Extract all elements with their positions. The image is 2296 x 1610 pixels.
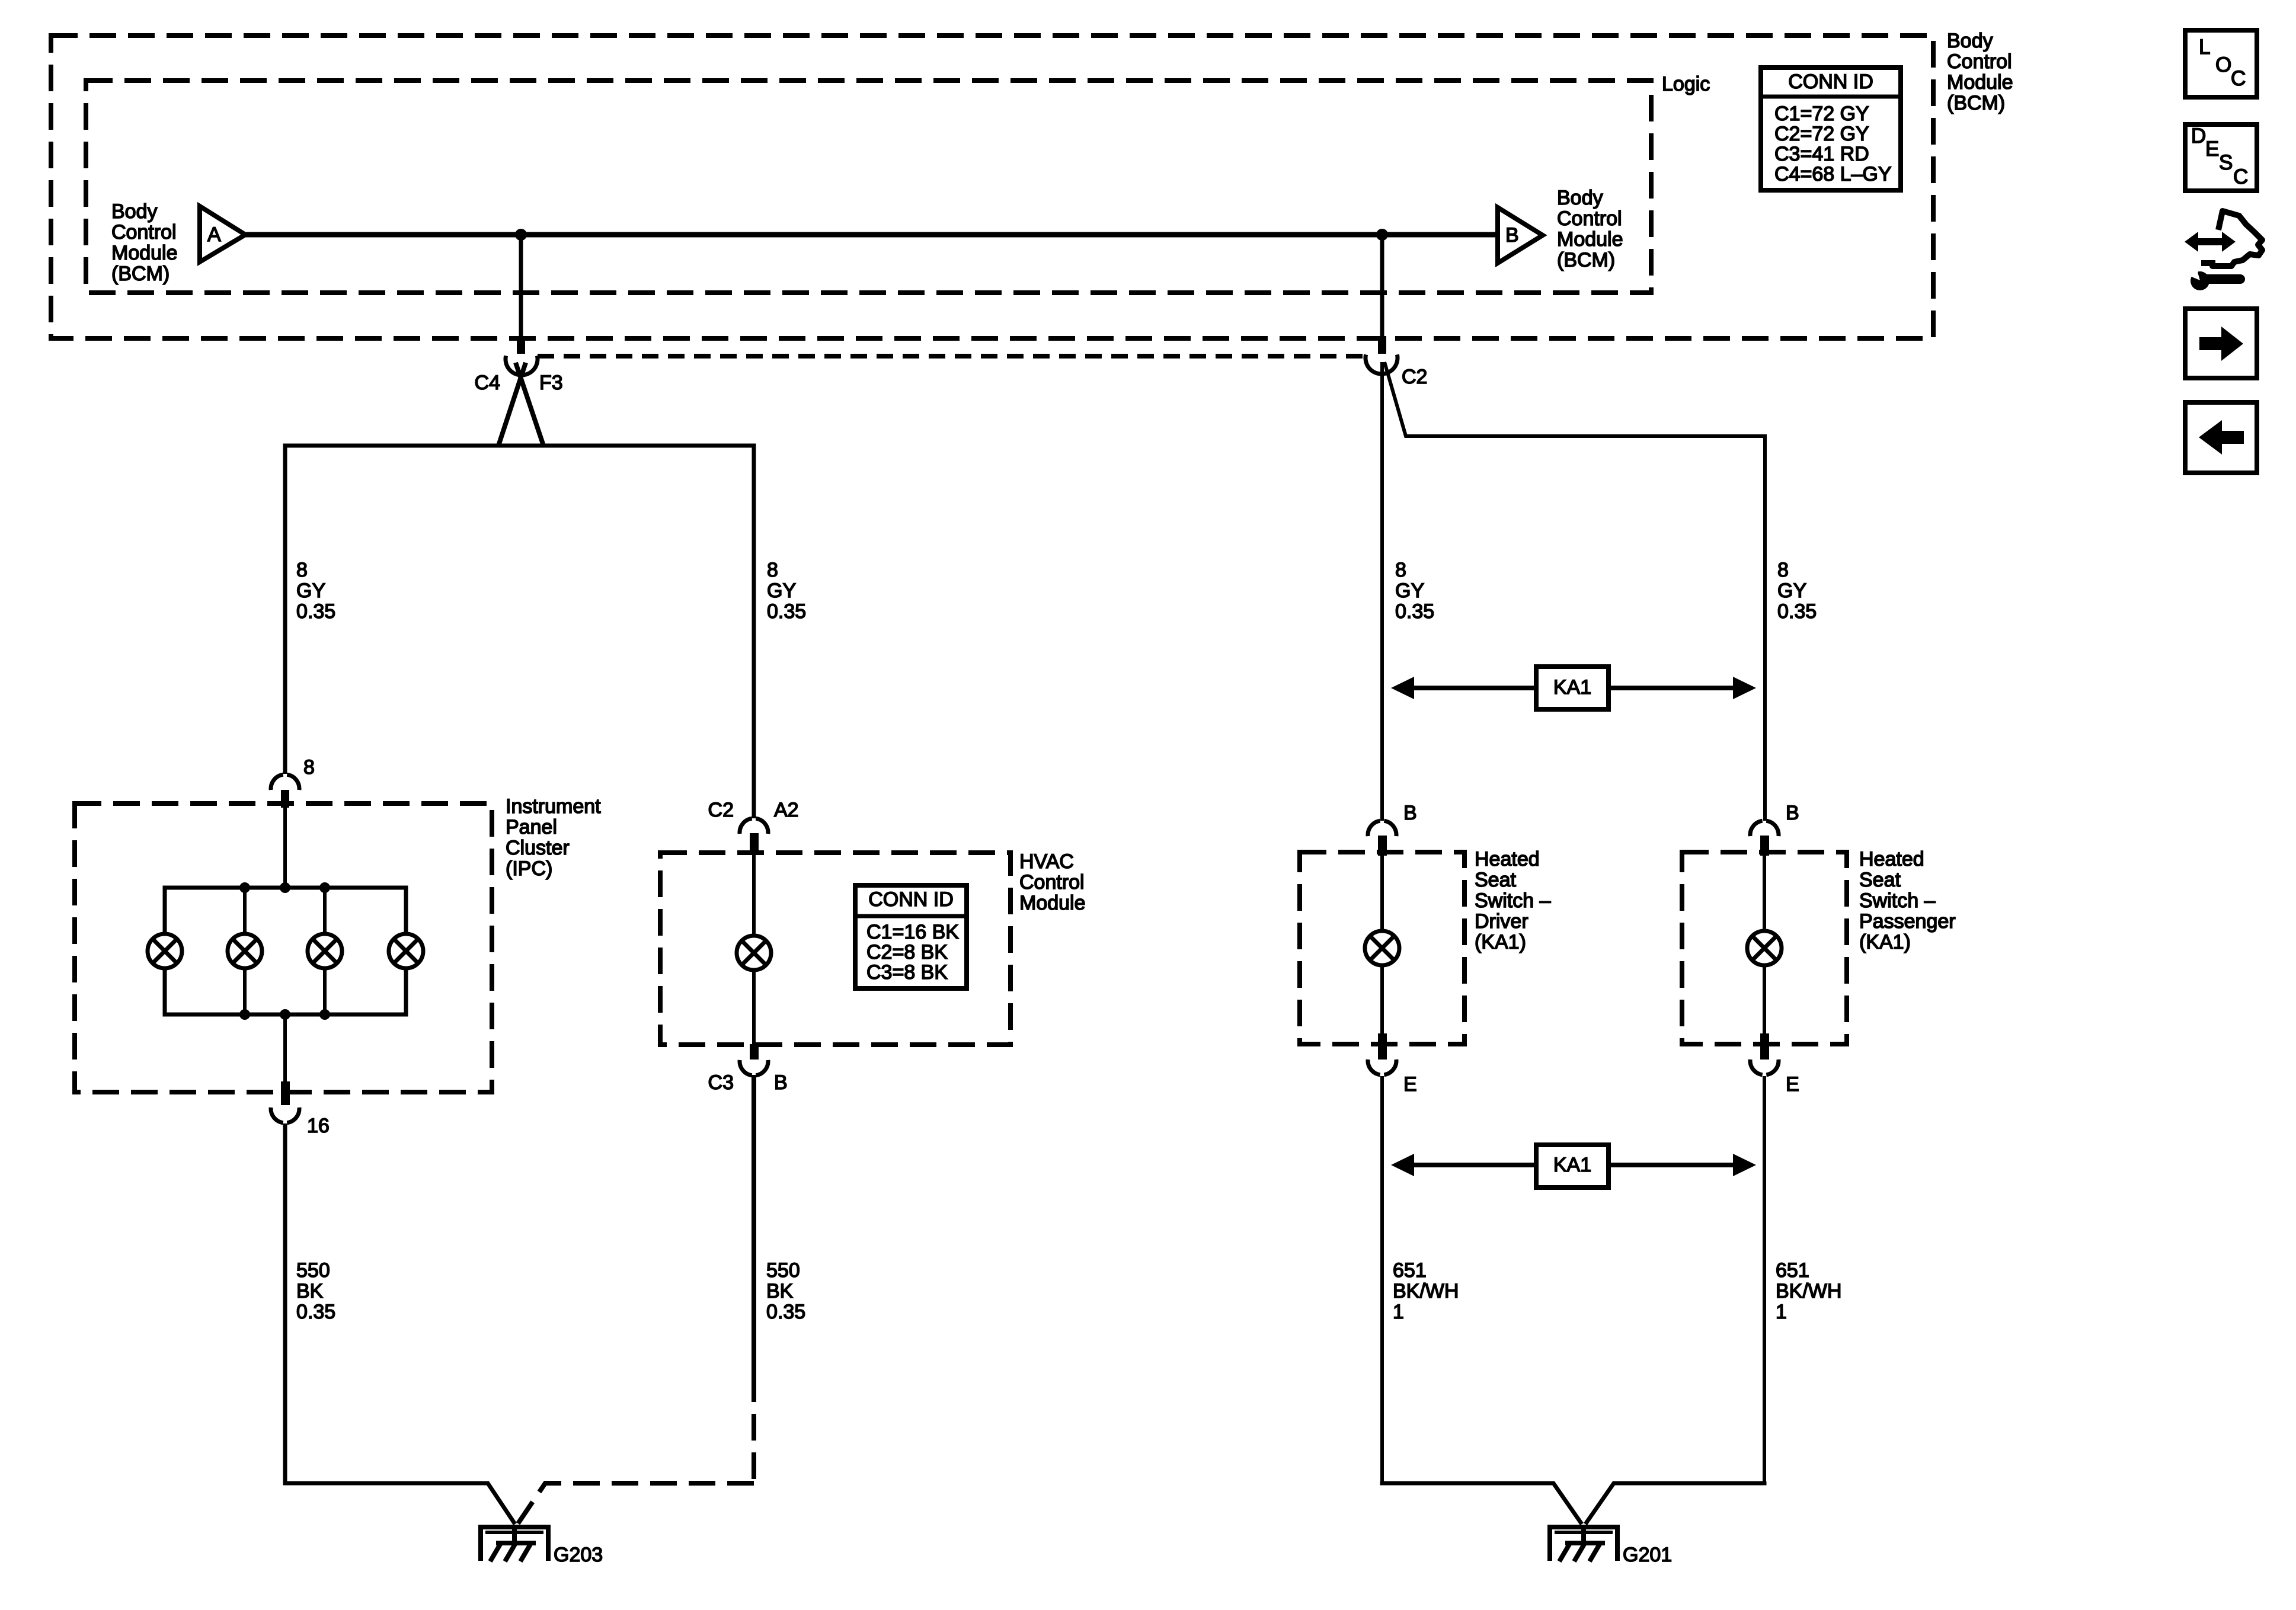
svg-text:E: E xyxy=(2205,137,2219,161)
lamp IPC backlight 2 xyxy=(228,934,262,968)
connector pin B arc into driver switch xyxy=(1368,821,1396,836)
wire inside HVAC from lamp to pin C3 xyxy=(752,971,756,1045)
svg-text:KA1: KA1 xyxy=(1553,1154,1591,1176)
wire inside passenger switch from lamp xyxy=(1763,967,1766,1038)
wire inside driver switch from lamp xyxy=(1380,967,1384,1038)
wire IPC ground run to G203 xyxy=(285,1481,515,1524)
svg-text:C2: C2 xyxy=(708,799,734,821)
wire IPC lamp bottom bus xyxy=(165,970,406,1014)
ground G201 xyxy=(1550,1527,1617,1561)
connector C2 terminal stub xyxy=(1378,336,1386,354)
wire splice bus under C4 xyxy=(285,446,754,818)
module HVAC Control Module dashed box xyxy=(660,853,1011,1045)
wire drop from junction to connector C2 xyxy=(1380,235,1384,337)
pin 8 terminal stub xyxy=(281,790,289,808)
connector ID table HVAC xyxy=(855,885,967,988)
wire lamp 2 bottom lead xyxy=(243,970,247,1014)
wire heated seat driver branch vertical xyxy=(1380,362,1384,821)
wire 550 BK from IPC to ground rail xyxy=(283,1124,287,1483)
svg-text:16: 16 xyxy=(307,1115,330,1137)
svg-text:F3: F3 xyxy=(539,372,563,394)
icon LOC button xyxy=(2185,30,2257,97)
wire main serial data A to B xyxy=(245,232,1498,238)
wire 550 BK from HVAC solid part xyxy=(752,1075,756,1375)
svg-text:B: B xyxy=(1505,224,1519,247)
svg-text:S: S xyxy=(2219,151,2233,174)
svg-text:B: B xyxy=(1403,802,1417,824)
connector pin B arc into passenger switch xyxy=(1750,821,1779,836)
svg-text:E: E xyxy=(1403,1073,1417,1096)
lamp IPC backlight 4 xyxy=(389,934,423,968)
svg-text:CONN ID: CONN ID xyxy=(1788,71,1873,93)
junction bottom bus lamp3 xyxy=(319,1009,330,1020)
icon vehicle data with wrench xyxy=(2185,211,2262,290)
BCM output buffer A xyxy=(200,206,245,262)
junction top bus feed xyxy=(280,882,290,893)
connector ID table BCM xyxy=(1761,68,1901,190)
svg-text:A2: A2 xyxy=(774,799,799,821)
svg-text:G201: G201 xyxy=(1623,1544,1672,1566)
junction top bus lamp2 xyxy=(239,882,250,893)
lamp HVAC backlight xyxy=(737,936,771,970)
connector C2 receptacle xyxy=(1366,354,1398,374)
connector pin 8 arc into IPC xyxy=(271,774,299,790)
harness KA1 double arrow lower xyxy=(1391,1145,1756,1188)
icon back arrow button xyxy=(2185,402,2257,473)
module Instrument Panel Cluster (IPC) dashed box xyxy=(75,804,492,1092)
svg-text:C: C xyxy=(2231,67,2246,90)
wire drop from junction to connector C4 xyxy=(519,235,523,337)
wire splice leg right from C4 xyxy=(516,363,543,446)
logic dashed box inside BCM xyxy=(86,81,1651,293)
connector pin C3/B arc out of HVAC xyxy=(740,1060,768,1076)
svg-text:L: L xyxy=(2199,36,2210,59)
connector C4 terminal stub xyxy=(517,336,525,354)
wire IPC lamp top bus xyxy=(165,888,406,932)
wire lamp 3 top lead xyxy=(323,888,327,932)
pin C3 terminal stub xyxy=(750,1044,759,1060)
svg-text:Logic: Logic xyxy=(1662,73,1710,95)
module Heated Seat Switch - Passenger dashed box xyxy=(1682,852,1847,1044)
harness KA1 double arrow upper xyxy=(1391,667,1756,709)
svg-text:C1=16 BKC2=8 BKC3=8 BK: C1=16 BKC2=8 BKC3=8 BK xyxy=(866,921,959,984)
connector pin C2/A2 arc into HVAC xyxy=(740,818,768,834)
connector pin 16 arc out of IPC xyxy=(271,1108,299,1123)
svg-text:C2: C2 xyxy=(1402,366,1427,388)
wire inside passenger switch to lamp xyxy=(1763,855,1766,930)
pin E terminal stub (driver) xyxy=(1378,1033,1387,1060)
wire splice leg to passenger branch xyxy=(1384,362,1765,821)
svg-text:O: O xyxy=(2215,53,2231,76)
svg-text:8: 8 xyxy=(303,756,315,779)
lamp heated seat switch driver xyxy=(1365,931,1399,965)
wire IPC return to pin 16 xyxy=(283,1014,287,1083)
icon DESC button xyxy=(2185,124,2257,191)
pin E terminal stub (passenger) xyxy=(1760,1033,1769,1060)
svg-text:D: D xyxy=(2191,124,2206,148)
lamp heated seat switch passenger xyxy=(1747,931,1782,965)
wire splice leg left from C4 xyxy=(498,363,526,446)
BCM input buffer B xyxy=(1498,207,1543,263)
module Body Control Module (BCM) outer dashed box xyxy=(51,36,1933,338)
svg-text:C3: C3 xyxy=(708,1071,734,1094)
junction bottom bus return xyxy=(280,1009,290,1020)
module Heated Seat Switch - Driver dashed box xyxy=(1300,852,1464,1044)
junction at C4 drop xyxy=(515,229,527,241)
pin 16 terminal stub xyxy=(281,1081,290,1105)
svg-text:E: E xyxy=(1786,1073,1799,1096)
wire inside HVAC to lamp xyxy=(752,852,756,934)
wire ground rail to G201 xyxy=(1382,1481,1764,1524)
pin A2 terminal stub xyxy=(750,833,759,855)
connector C4/F3 receptacle xyxy=(506,356,538,375)
ground G203 xyxy=(481,1527,548,1561)
lamp IPC backlight 3 xyxy=(308,934,342,968)
connector pin E arc out of driver switch xyxy=(1368,1060,1396,1075)
svg-text:G203: G203 xyxy=(554,1544,603,1566)
pin B terminal stub (passenger) xyxy=(1760,836,1769,856)
svg-text:B: B xyxy=(1786,802,1799,824)
wire lamp 2 top lead xyxy=(243,888,247,932)
pin B terminal stub (driver) xyxy=(1378,836,1387,856)
svg-text:A: A xyxy=(207,223,221,246)
wire inside IPC from pin 8 to lamp bus xyxy=(283,808,287,888)
lamp IPC backlight 1 xyxy=(148,934,182,968)
wire inside driver switch to lamp xyxy=(1380,855,1384,930)
svg-text:B: B xyxy=(774,1071,788,1094)
wire lamp 3 bottom lead xyxy=(323,970,327,1014)
wire 550 BK dashed part xyxy=(752,1375,756,1481)
svg-text:CONN ID: CONN ID xyxy=(868,888,954,911)
junction top bus lamp3 xyxy=(319,882,330,893)
connector pin E arc out of passenger switch xyxy=(1750,1060,1779,1075)
wire dashed run to ground G203 xyxy=(518,1483,754,1523)
svg-text:C4: C4 xyxy=(475,372,500,394)
svg-text:KA1: KA1 xyxy=(1553,676,1591,699)
svg-text:C: C xyxy=(2233,165,2248,188)
wire 651 BK/WH passenger to ground rail xyxy=(1763,1076,1766,1483)
icon forward arrow button xyxy=(2185,309,2257,378)
junction at C2 drop xyxy=(1376,229,1388,241)
dotted connector tie line C4 to C2 xyxy=(538,354,1365,359)
junction bottom bus lamp2 xyxy=(239,1009,250,1020)
wire 651 BK/WH driver to ground rail xyxy=(1380,1076,1384,1483)
